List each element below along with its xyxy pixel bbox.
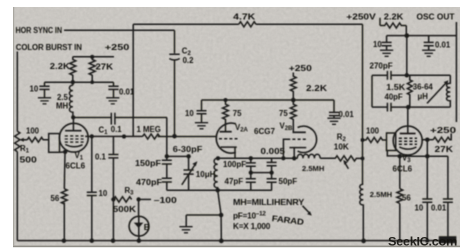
node: rail dot screen bypass bbox=[111, 238, 116, 243]
grid box of V3 bbox=[387, 133, 396, 151]
wire: V2B grid return bbox=[283, 139, 287, 158]
V2B grid dashes bbox=[287, 138, 307, 140]
node: V2B cathode junction bbox=[292, 156, 296, 160]
svg-text:100: 100 bbox=[26, 127, 40, 136]
capacitor 0.01 (V3 bypass) bbox=[443, 199, 453, 202]
capacitor C2 0.2 bbox=[169, 54, 179, 60]
wire: between 150pF and 470pF bbox=[166, 164, 168, 178]
svg-text:500: 500 bbox=[20, 156, 38, 165]
wire: tank top rail bbox=[372, 74, 387, 76]
inductor 2.5MH (cathode) bbox=[297, 154, 320, 158]
node: tank bottom junction bbox=[406, 105, 411, 110]
node: V3 cathode junction bbox=[398, 154, 403, 159]
wire: COLOR BURST input column bbox=[16, 52, 18, 132]
node: 2.2K bottom bbox=[71, 80, 75, 84]
svg-text:0.01: 0.01 bbox=[435, 41, 451, 50]
wire: 10 cap to rail bbox=[426, 202, 428, 240]
wire: lamp B to ground rail bbox=[138, 236, 140, 241]
wire: hor-sync drop to C2 bbox=[174, 30, 176, 53]
node: R3 right junction bbox=[136, 197, 140, 201]
wire: R3 junction down to lamp B bbox=[138, 199, 140, 216]
wire: tank bottom rail bbox=[372, 106, 387, 108]
capacitor 0.01 (plate rail bypass right) bbox=[329, 100, 339, 118]
V3 grid dashes bbox=[399, 138, 417, 144]
wiper arrow of R1 bbox=[22, 139, 27, 141]
wire: 470pF bottom lead bbox=[166, 182, 168, 190]
svg-text:MH=MILLIHENRY: MH=MILLIHENRY bbox=[233, 198, 305, 207]
wire: 50pF bottom lead bbox=[271, 182, 273, 190]
node: V1 cathode junction bbox=[63, 150, 67, 154]
capacitor 50pF bbox=[267, 179, 277, 182]
svg-text:75: 75 bbox=[233, 109, 242, 118]
right border line bbox=[455, 22, 457, 122]
node: grid bus junction bbox=[122, 134, 126, 138]
wire: V1 plate row to C1 bbox=[73, 117, 111, 119]
wire: decoupled rail y82 bbox=[45, 81, 114, 83]
svg-text:270pF: 270pF bbox=[370, 61, 393, 70]
resistor 4.7K bbox=[239, 22, 256, 27]
svg-text:6-30pF: 6-30pF bbox=[173, 145, 203, 154]
svg-text:47pF: 47pF bbox=[225, 177, 244, 186]
node: tank top junction bbox=[405, 73, 410, 78]
node: R3 left junction bbox=[111, 197, 115, 201]
svg-text:+250: +250 bbox=[105, 43, 130, 52]
wire: cathode bypass branch upper bbox=[91, 136, 93, 192]
V2A grid dashes bbox=[219, 138, 238, 140]
resistor 27K (screen feed) bbox=[89, 57, 95, 82]
node: 10uH bottom junction bbox=[215, 188, 220, 193]
ground (plate rail 0.01 cap) bbox=[327, 118, 340, 124]
wire: 100pF top lead bbox=[250, 158, 252, 162]
node: 27K bottom bbox=[90, 80, 94, 84]
svg-text:0.1: 0.1 bbox=[95, 153, 107, 162]
node: screen bus tap bbox=[90, 134, 94, 138]
wire: V3 cathode row right bbox=[400, 155, 448, 157]
R2 wiper arrow bbox=[345, 163, 348, 169]
capacitor 0.01 (osc bypass) bbox=[424, 36, 434, 50]
inductor 2.5MH (V3 grid choke) bbox=[360, 184, 364, 241]
svg-text:SeekIC.com: SeekIC.com bbox=[388, 234, 457, 248]
svg-text:6CL6: 6CL6 bbox=[66, 162, 86, 171]
node: trimmer top bbox=[186, 154, 190, 158]
capacitor 150pF bbox=[162, 160, 172, 164]
svg-text:10K: 10K bbox=[334, 142, 349, 151]
half-tube V2A envelope bbox=[216, 123, 236, 153]
wire: 47pF bottom lead bbox=[250, 182, 252, 190]
resistor 75 (V2A plate) bbox=[223, 100, 229, 132]
svg-text:75: 75 bbox=[279, 109, 288, 118]
svg-text:K=X 1,000: K=X 1,000 bbox=[233, 222, 271, 231]
node: V3 grid feed tap bbox=[361, 138, 365, 142]
wire: osc junction down to tank bbox=[406, 36, 408, 76]
ground (left 10 cap) bbox=[38, 98, 51, 104]
ground rail (bottom bus) bbox=[17, 240, 448, 242]
svg-text:2.2K: 2.2K bbox=[306, 84, 327, 93]
wire: trimmer bottom lead bbox=[188, 174, 190, 190]
svg-text:B: B bbox=[144, 222, 150, 232]
svg-text:0.1: 0.1 bbox=[111, 125, 123, 134]
node: rail dot grid choke bbox=[361, 239, 366, 244]
svg-text:56: 56 bbox=[402, 194, 411, 203]
wire: tank left side bbox=[371, 75, 373, 107]
node: 100pF chain top bbox=[249, 156, 253, 160]
variable inductor 36-64uH bbox=[447, 75, 451, 107]
capacitor 10 (left bypass) bbox=[39, 82, 49, 97]
half-tube V2B envelope bbox=[298, 126, 317, 152]
capacitor 10 (V3 bypass) bbox=[422, 199, 432, 202]
node: OSC OUT junction bbox=[404, 33, 409, 38]
trimmer capacitor 6-30pF bbox=[184, 170, 194, 174]
resistor 56 (V3 cathode) bbox=[397, 189, 403, 204]
svg-text:+250: +250 bbox=[430, 126, 457, 135]
paper bottom edge shadow bbox=[13, 246, 460, 248]
V3 plate bar bbox=[400, 133, 416, 135]
svg-text:10: 10 bbox=[99, 189, 108, 198]
lamp B internal lead bbox=[138, 216, 140, 236]
svg-text:27K: 27K bbox=[96, 63, 114, 72]
wire: bottom bus drop to ground rail bbox=[218, 190, 222, 240]
V1 plate lead bbox=[72, 117, 74, 130]
svg-text:10: 10 bbox=[373, 40, 382, 49]
svg-text:10: 10 bbox=[415, 204, 424, 213]
wire: cathode bypass branch lower bbox=[91, 196, 93, 241]
triode V1 envelope bbox=[59, 123, 88, 152]
svg-text:2.5MH: 2.5MH bbox=[302, 164, 324, 173]
capacitor 47pF bbox=[246, 179, 256, 182]
wire: plate junction down bbox=[426, 140, 428, 199]
svg-text:50pF: 50pF bbox=[279, 177, 298, 186]
capacitor 0.1 (screen bypass, series in line) bbox=[108, 155, 118, 158]
node: cathode row / 10 cap junction bbox=[425, 154, 430, 159]
wire: HOR SYNC IN line bbox=[64, 29, 175, 31]
node: R2 line tap bbox=[361, 156, 365, 160]
capacitor 40pF (series) bbox=[387, 103, 391, 112]
node: 150pF chain top bbox=[165, 154, 169, 158]
wire: 0.01 to rail blob bbox=[447, 202, 449, 237]
V1 plate bar bbox=[65, 130, 81, 132]
wire: grid box to cathode dot bbox=[60, 151, 65, 153]
wire: 0.005 top lead bbox=[271, 158, 273, 162]
V2B plate bar bbox=[293, 131, 306, 133]
wire: stub to trimmer bbox=[167, 155, 191, 157]
V2A cathode bar bbox=[221, 146, 237, 148]
wire: 100pF to 47pF bbox=[250, 166, 252, 178]
resistor 100 (V1 grid stopper) bbox=[27, 137, 49, 142]
V1 grid dashes bbox=[65, 136, 84, 142]
node: 75-A top bbox=[224, 98, 228, 102]
inductor 10uH bbox=[214, 158, 218, 190]
wire: 0.005 to link bbox=[271, 166, 273, 179]
indicator lamp B envelope bbox=[129, 216, 149, 236]
wire: 150pF chain top lead bbox=[166, 137, 168, 160]
svg-text:+250: +250 bbox=[289, 64, 313, 73]
node: 10uH top bbox=[216, 156, 220, 160]
wire: top B+ rail right part bbox=[256, 23, 363, 25]
wire: 0.01 branch down bbox=[447, 156, 449, 198]
potentiometer R2 10K bbox=[335, 156, 356, 161]
resistor 2.2K (V2B supply) bbox=[290, 73, 296, 101]
node: rail dot lamp B bbox=[137, 238, 142, 243]
note arrow bbox=[303, 206, 310, 214]
svg-text:μH: μH bbox=[418, 92, 429, 101]
resistor 1.5K bbox=[407, 75, 412, 107]
capacitor C1 0.1 (coupling) bbox=[111, 113, 115, 125]
capacitor 270pF (series) bbox=[387, 71, 391, 80]
capacitor 0.005 bbox=[267, 162, 277, 165]
wire: 56 to ground rail bbox=[63, 203, 65, 241]
wire: link between chains bbox=[251, 172, 272, 174]
svg-text:6CL6: 6CL6 bbox=[393, 164, 413, 173]
svg-text:1.5K: 1.5K bbox=[386, 83, 405, 92]
lamp B cathode wedge bbox=[134, 223, 144, 228]
wire: OSC OUT rail bbox=[387, 35, 457, 37]
wire: input column below R1 to ground rail bbox=[16, 152, 18, 241]
wire: B+ drop to V3 section bbox=[362, 24, 364, 184]
svg-text:100: 100 bbox=[366, 127, 380, 136]
paper left edge shadow bbox=[13, 7, 14, 246]
ground (left 0.01 cap) bbox=[106, 98, 119, 104]
inductor 2.5MH (V1 plate choke) bbox=[69, 82, 72, 117]
svg-text:10: 10 bbox=[30, 85, 39, 94]
wire: V2A cathode row bbox=[218, 157, 363, 159]
node: rail dot cathode bypass bbox=[90, 238, 95, 243]
capacitor 100pF bbox=[246, 163, 256, 166]
resistor 56 (V1 cathode) bbox=[61, 189, 67, 204]
wire: +250V stub to 2.2K bbox=[379, 18, 381, 26]
capacitor 470pF bbox=[162, 178, 172, 182]
wire: screen bypass branch lower bbox=[112, 158, 114, 241]
svg-text:470pF: 470pF bbox=[136, 178, 162, 187]
svg-text:4.7K: 4.7K bbox=[233, 13, 255, 22]
ground (phase network) bbox=[179, 227, 192, 233]
svg-text:6CG7: 6CG7 bbox=[254, 127, 275, 136]
ground (osc 0.01 cap) bbox=[422, 50, 435, 56]
wire: tank top rail right bbox=[391, 74, 450, 76]
wire: C1 to elbow bbox=[115, 117, 167, 119]
wire: tank bottom rail right bbox=[391, 106, 450, 108]
node: V1 plate junction bbox=[71, 115, 75, 119]
resistor 27K (V3 supply) bbox=[433, 133, 451, 142]
node: 0.005/50pF junction bbox=[269, 170, 273, 174]
inductor tuning arrow bbox=[427, 83, 446, 103]
svg-text:COLOR BURST IN: COLOR BURST IN bbox=[16, 43, 82, 52]
svg-text:OSC OUT: OSC OUT bbox=[417, 12, 455, 21]
node: 27K top junction bbox=[90, 55, 94, 59]
svg-text:2.2K: 2.2K bbox=[384, 12, 404, 21]
wire: elbow down to grid bus bbox=[166, 118, 168, 137]
triode V3 envelope bbox=[393, 126, 422, 155]
wire: V3 plate to 27K junction bbox=[422, 139, 433, 141]
wire: trimmer top lead bbox=[188, 156, 190, 169]
wire: V3 56 to ground rail bbox=[399, 204, 401, 241]
svg-text:56: 56 bbox=[51, 194, 60, 203]
node: ground stub junction bbox=[219, 213, 224, 218]
resistor 2.2K (V1 plate feed) bbox=[70, 57, 76, 82]
V1 cathode arc bbox=[65, 144, 82, 146]
svg-text:36-64: 36-64 bbox=[413, 83, 434, 92]
wire: 2.2K to osc-out junction bbox=[405, 26, 407, 36]
svg-text:0.01: 0.01 bbox=[339, 110, 355, 119]
wire: B+ branch down at x133 bbox=[132, 24, 134, 136]
V2B cathode lead bbox=[293, 148, 295, 159]
grid box of V1 bbox=[49, 134, 60, 153]
V2A plate bar bbox=[220, 131, 232, 133]
svg-text:10: 10 bbox=[185, 109, 194, 118]
svg-text:–100: –100 bbox=[154, 196, 178, 205]
svg-text:10μH: 10μH bbox=[196, 170, 216, 179]
svg-text:0.2: 0.2 bbox=[183, 56, 195, 65]
svg-text:1 MEG: 1 MEG bbox=[137, 125, 161, 134]
wire: V3 grid box to cathode node bbox=[387, 151, 400, 156]
node: rail dot V1 cathode bbox=[62, 238, 67, 243]
svg-text:MH: MH bbox=[56, 102, 68, 111]
resistor 1 MEG bbox=[143, 134, 160, 139]
svg-text:0.01: 0.01 bbox=[431, 204, 447, 213]
ground (plate rail 10 cap) bbox=[195, 123, 208, 129]
resistor R3 500K bbox=[113, 197, 131, 202]
node: V2A grid node bbox=[172, 134, 177, 139]
capacitor 10 (cathode bypass, series in line) bbox=[87, 192, 97, 195]
ground (osc 10 cap) bbox=[380, 50, 393, 56]
wire: V1 cathode down bbox=[63, 152, 66, 189]
svg-text:HOR SYNC IN: HOR SYNC IN bbox=[16, 26, 63, 35]
resistor 2.2K (osc output) bbox=[380, 23, 406, 28]
svg-text:2.5MH: 2.5MH bbox=[370, 190, 392, 199]
V3 plate lead bbox=[407, 107, 409, 133]
node: V2B grid tie bbox=[281, 156, 285, 160]
svg-text:40pF: 40pF bbox=[385, 92, 403, 101]
rail end blob bbox=[439, 236, 457, 243]
node: V3 plate junction bbox=[425, 137, 430, 142]
capacitor 0.01 (left bypass) bbox=[108, 82, 118, 97]
wire: V1 screen bus to V2A grid bbox=[85, 135, 216, 137]
node: 100pF/47pF junction bbox=[249, 170, 253, 174]
resistor 75 (V2B plate) bbox=[290, 100, 296, 132]
svg-text:100pF: 100pF bbox=[223, 160, 246, 169]
wire: screen bypass branch upper bbox=[112, 137, 114, 155]
svg-text:2.2K: 2.2K bbox=[50, 62, 70, 71]
wire: ground stub bbox=[186, 215, 221, 227]
svg-text:0.01: 0.01 bbox=[119, 88, 135, 97]
node: rail dot V3 bypass bbox=[425, 239, 429, 243]
svg-text:27K: 27K bbox=[435, 145, 454, 154]
svg-text:150pF: 150pF bbox=[135, 159, 161, 168]
capacitor 10 (plate rail bypass) bbox=[197, 100, 207, 123]
V2A cathode lead bbox=[234, 147, 236, 158]
trimmer arrow bbox=[182, 165, 195, 185]
svg-text:500K: 500K bbox=[113, 205, 136, 214]
wire: V3 cathode down bbox=[399, 156, 401, 189]
wire: C2 to V2A grid node bbox=[174, 60, 176, 136]
wire: phase network bottom bus bbox=[167, 189, 272, 191]
wire: V2 plate rail bbox=[202, 99, 335, 101]
node: rail dot phase network bbox=[219, 239, 224, 244]
potentiometer R1 500 bbox=[15, 131, 20, 151]
wire: top B+ rail left part bbox=[133, 23, 239, 25]
V2B cathode bar bbox=[290, 147, 307, 149]
V3 cathode arc bbox=[399, 147, 416, 149]
node: 2.2K/75-B junction bbox=[291, 98, 296, 103]
resistor 100 (V3 grid stopper) bbox=[363, 138, 387, 143]
capacitor 10 (osc bypass) bbox=[382, 36, 392, 50]
svg-text:0.005: 0.005 bbox=[261, 147, 286, 156]
wire: supply rail over 2.2K and 27K bbox=[73, 56, 114, 58]
svg-text:+250V: +250V bbox=[346, 13, 376, 22]
wire: to -100 label bbox=[139, 198, 151, 200]
